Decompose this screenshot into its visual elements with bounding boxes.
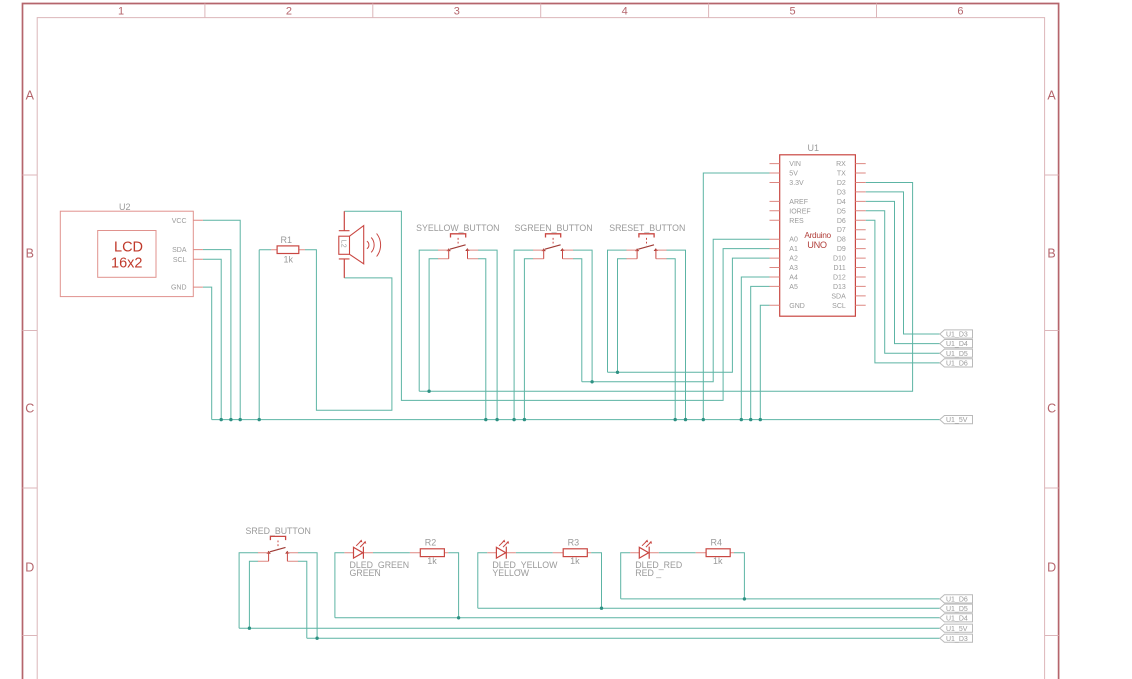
Arduino UNO U1 bbox=[770, 143, 866, 316]
wire LCD SDA down to rail bbox=[203, 250, 231, 420]
svg-text:U1_D6: U1_D6 bbox=[946, 361, 968, 368]
svg-text:U1_D6: U1_D6 bbox=[946, 597, 968, 604]
wire SGREEN upper-right pin to A0 bus bbox=[573, 250, 592, 382]
svg-text:1k: 1k bbox=[713, 556, 723, 566]
svg-text:SYELLOW_BUTTON: SYELLOW_BUTTON bbox=[416, 223, 499, 233]
net U1_D3 bottom bus bbox=[307, 637, 940, 639]
svg-text:GND: GND bbox=[171, 285, 187, 292]
wire LED red anode loop bbox=[621, 553, 631, 599]
svg-text:3.3V: 3.3V bbox=[789, 180, 804, 187]
svg-text:C: C bbox=[25, 401, 34, 415]
svg-text:D7: D7 bbox=[837, 227, 846, 234]
svg-text:1k: 1k bbox=[570, 556, 580, 566]
LCD module U2 bbox=[60, 202, 203, 297]
wire R1 right to speaker bottom loop bbox=[305, 250, 392, 411]
wire LED green anode loop bbox=[335, 553, 345, 618]
LED DLED_RED bbox=[630, 540, 734, 578]
svg-text:SRED_BUTTON: SRED_BUTTON bbox=[246, 526, 311, 536]
junction dot on bottom D3 bus bbox=[315, 637, 318, 640]
svg-text:R3: R3 bbox=[568, 538, 580, 548]
svg-text:U1_D4: U1_D4 bbox=[946, 341, 968, 348]
svg-text:AREF: AREF bbox=[789, 199, 808, 206]
svg-text:A: A bbox=[26, 89, 35, 103]
svg-text:VCC: VCC bbox=[172, 218, 187, 225]
wire SYELLOW lower-right pin to rail bbox=[478, 259, 486, 420]
wire Arduino 5V pin down to rail bbox=[703, 173, 769, 420]
wire LED red to R4 bbox=[659, 552, 696, 554]
wire R4 right down to D6 bus bbox=[734, 553, 744, 599]
wire LED yellow anode loop bbox=[478, 553, 488, 609]
wire SRED upper-left pin to 5V bus bbox=[239, 553, 258, 629]
net U1_D6 bottom bus bbox=[621, 598, 940, 600]
wire Arduino A2 to SRESET left pins bbox=[608, 258, 770, 372]
wire LCD SCL down to rail bbox=[203, 259, 221, 419]
svg-text:6: 6 bbox=[957, 5, 963, 17]
svg-text:IOREF: IOREF bbox=[789, 208, 810, 215]
wire LCD VCC to 5V rail bbox=[203, 220, 240, 419]
svg-text:RED _: RED _ bbox=[635, 568, 661, 578]
wire SRESET lower-right pin to rail bbox=[666, 259, 675, 420]
net flag U1_D4 upper bbox=[940, 340, 973, 349]
wire R3 right down to D5 bus bbox=[591, 553, 601, 609]
svg-text:D8: D8 bbox=[837, 237, 846, 244]
resistor R2 bbox=[420, 538, 444, 567]
junction dot on D2 bus bbox=[427, 390, 430, 393]
svg-text:Arduino: Arduino bbox=[804, 230, 831, 240]
wire SYELLOW lower-left pin to D2 bus bbox=[429, 259, 438, 392]
junction dot on bottom 5V bus bbox=[248, 627, 251, 630]
wire Arduino D3 to flag U1_D3 bbox=[866, 192, 940, 334]
svg-text:L2: L2 bbox=[339, 240, 346, 248]
wire R1 left lead down to rail bbox=[259, 250, 271, 420]
net flag U1_D3 lower bbox=[940, 634, 973, 643]
svg-text:U1_5V: U1_5V bbox=[946, 417, 968, 424]
svg-text:R1: R1 bbox=[281, 235, 293, 245]
wire SYELLOW upper-right pin to rail bbox=[478, 250, 497, 420]
svg-text:R4: R4 bbox=[711, 538, 723, 548]
svg-text:A5: A5 bbox=[789, 284, 798, 291]
wire SRESET upper-right pin to rail bbox=[666, 250, 685, 420]
svg-text:U2: U2 bbox=[119, 202, 131, 212]
LED DLED_YELLOW bbox=[487, 540, 591, 578]
svg-text:D13: D13 bbox=[833, 284, 846, 291]
pushbutton SYELLOW_BUTTON bbox=[416, 223, 499, 259]
svg-text:A1: A1 bbox=[789, 246, 798, 253]
svg-text:U1: U1 bbox=[808, 143, 820, 153]
svg-text:RX: RX bbox=[836, 161, 846, 168]
svg-text:1k: 1k bbox=[284, 255, 294, 265]
wire R2 right down to D4 bus bbox=[448, 553, 458, 618]
svg-text:SCL: SCL bbox=[832, 303, 846, 310]
svg-text:1k: 1k bbox=[427, 556, 437, 566]
svg-text:D2: D2 bbox=[837, 180, 846, 187]
svg-text:D: D bbox=[1047, 560, 1056, 574]
net flag U1_D5 lower bbox=[940, 604, 973, 613]
svg-text:SCL: SCL bbox=[173, 257, 187, 264]
wire Arduino D2 to SYELLOW left pins bbox=[419, 183, 912, 392]
svg-text:D11: D11 bbox=[833, 265, 845, 272]
svg-text:GREEN: GREEN bbox=[350, 568, 381, 578]
junction dot on D5 bus bbox=[600, 607, 603, 610]
svg-text:B: B bbox=[26, 246, 34, 260]
resistor R1 bbox=[271, 235, 305, 264]
svg-text:D: D bbox=[25, 560, 34, 574]
net flag U1_D6 lower bbox=[940, 595, 973, 604]
net flag U1_D3 upper bbox=[940, 330, 973, 339]
svg-text:RES: RES bbox=[789, 218, 804, 225]
wire Arduino A4 down to rail bbox=[741, 277, 769, 420]
net U1_5V horizontal rail bbox=[212, 419, 940, 421]
pushbutton SRESET_BUTTON bbox=[609, 223, 685, 259]
wire SGREEN lower-right pin to A0 bus bbox=[573, 259, 582, 382]
wire SGREEN lower-left pin to rail bbox=[524, 259, 533, 420]
svg-text:U1_D3: U1_D3 bbox=[946, 636, 968, 643]
wire Arduino D4 to flag U1_D4 bbox=[866, 201, 940, 343]
svg-text:A2: A2 bbox=[789, 256, 798, 263]
svg-text:D4: D4 bbox=[837, 199, 846, 206]
wire SGREEN upper-left pin to rail bbox=[514, 250, 533, 420]
net U1_D4 bottom bus bbox=[335, 617, 940, 619]
svg-text:A4: A4 bbox=[789, 275, 798, 282]
svg-text:16x2: 16x2 bbox=[111, 256, 142, 272]
svg-text:SDA: SDA bbox=[831, 293, 846, 300]
svg-text:3: 3 bbox=[454, 5, 460, 17]
svg-text:D6: D6 bbox=[837, 218, 846, 225]
wire speaker top to Arduino A1 bbox=[344, 211, 769, 400]
wire SRESET lower-left pin to A2 bus bbox=[618, 259, 627, 373]
resistor R3 bbox=[563, 538, 587, 567]
wire Arduino A5 down to rail bbox=[751, 286, 770, 419]
wire LED green to R2 bbox=[373, 552, 410, 554]
net U1_5V bottom bus bbox=[239, 627, 940, 629]
wire SRED upper-right pin to D3 bus bbox=[298, 553, 317, 639]
svg-text:U1_D4: U1_D4 bbox=[946, 615, 968, 622]
svg-text:1: 1 bbox=[118, 5, 124, 17]
wire SRED lower-right pin to D3 bus bbox=[298, 561, 307, 638]
junction dot on D4 bus bbox=[457, 616, 460, 619]
svg-text:4: 4 bbox=[622, 5, 628, 17]
svg-text:GND: GND bbox=[789, 303, 805, 310]
svg-text:U1_D5: U1_D5 bbox=[946, 606, 968, 613]
wire Arduino D5 to flag U1_D5 bbox=[866, 211, 940, 353]
svg-text:D12: D12 bbox=[833, 275, 846, 282]
svg-text:D10: D10 bbox=[833, 256, 846, 263]
svg-text:A0: A0 bbox=[789, 237, 798, 244]
svg-text:R2: R2 bbox=[425, 538, 437, 548]
wire SRED lower-left pin to 5V bus bbox=[249, 561, 258, 628]
svg-text:U1_D5: U1_D5 bbox=[946, 351, 968, 358]
junction dots on 5V rail bbox=[220, 418, 763, 421]
svg-text:C: C bbox=[1047, 401, 1056, 415]
wire Arduino D6 to flag U1_D6 bbox=[866, 220, 940, 363]
svg-text:U1_D3: U1_D3 bbox=[946, 332, 968, 339]
net U1_D5 bottom bus bbox=[478, 607, 940, 609]
pushbutton SGREEN_BUTTON bbox=[515, 223, 593, 259]
speaker L2 bbox=[339, 211, 381, 278]
net flag U1_D6 upper bbox=[940, 359, 973, 368]
svg-text:B: B bbox=[1047, 246, 1055, 260]
wire LED yellow to R3 bbox=[516, 552, 553, 554]
svg-text:5V: 5V bbox=[789, 171, 798, 178]
svg-text:SGREEN_BUTTON: SGREEN_BUTTON bbox=[515, 223, 593, 233]
svg-text:U1_5V: U1_5V bbox=[946, 626, 968, 633]
junction dot on D6 bus bbox=[743, 597, 746, 600]
net flag U1_D4 lower bbox=[940, 614, 973, 623]
svg-text:2: 2 bbox=[286, 5, 292, 17]
svg-text:YELLOW: YELLOW bbox=[492, 568, 529, 578]
svg-text:A3: A3 bbox=[789, 265, 798, 272]
wire LCD GND down to rail bbox=[203, 287, 212, 420]
junction dot on A0 bus bbox=[590, 380, 593, 383]
svg-text:VIN: VIN bbox=[789, 161, 801, 168]
wire Arduino A0 to SGREEN right pins bbox=[582, 239, 770, 382]
svg-text:5: 5 bbox=[790, 5, 796, 17]
net flag U1_5V lower bbox=[940, 624, 973, 633]
junction dot on A2 bus bbox=[616, 371, 619, 374]
svg-text:D3: D3 bbox=[837, 189, 846, 196]
svg-text:UNO: UNO bbox=[807, 240, 827, 250]
LED DLED_GREEN bbox=[344, 540, 448, 578]
net flag U1_D5 upper bbox=[940, 349, 973, 358]
resistor R4 bbox=[706, 538, 730, 567]
net flag U1_5V upper bbox=[940, 416, 973, 425]
pushbutton SRED_BUTTON bbox=[246, 526, 311, 562]
svg-text:SRESET_BUTTON: SRESET_BUTTON bbox=[609, 223, 685, 233]
svg-text:D9: D9 bbox=[837, 246, 846, 253]
svg-text:LCD: LCD bbox=[114, 240, 143, 256]
wire SYELLOW upper-left pin to D2 bus bbox=[419, 250, 438, 391]
svg-text:TX: TX bbox=[837, 171, 846, 178]
svg-text:D5: D5 bbox=[837, 208, 846, 215]
svg-text:SDA: SDA bbox=[172, 247, 187, 254]
wire Arduino GND down to rail bbox=[760, 305, 769, 419]
wire SRESET upper-left pin to A2 bus bbox=[608, 250, 627, 372]
svg-text:A: A bbox=[1047, 89, 1056, 103]
